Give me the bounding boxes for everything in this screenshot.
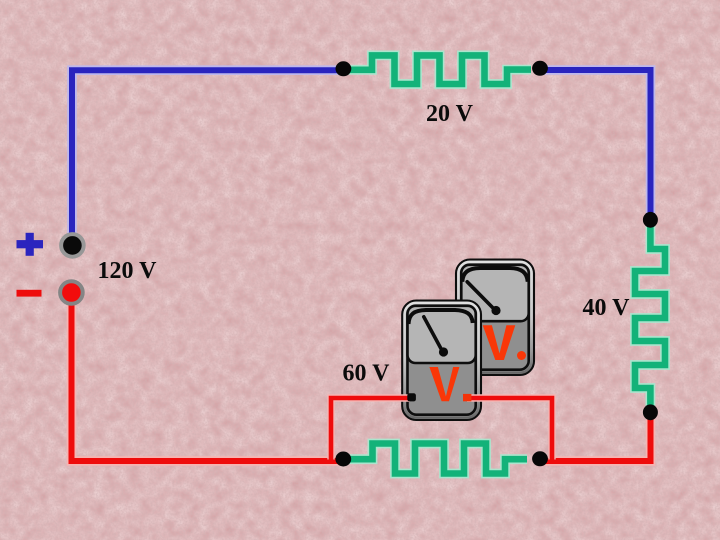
meter right terminal (red) bbox=[463, 394, 471, 401]
voltmeter V1 (front meter) bbox=[402, 301, 481, 421]
wire: red branch from meter right terminal down to bottom-right bbox=[467, 398, 552, 460]
node: bottom-left junction bbox=[335, 452, 351, 467]
wire: red from battery - down and across to bottom-left node bbox=[72, 295, 347, 461]
node: top-right junction bbox=[532, 61, 548, 76]
svg-text:60 V: 60 V bbox=[343, 361, 391, 387]
resistor R2 (bottom, 60 V) bbox=[346, 444, 527, 474]
svg-text:120 V: 120 V bbox=[98, 258, 158, 284]
node: bottom-right junction bbox=[532, 451, 548, 466]
resistor R1 (top, 20 V) bbox=[346, 55, 531, 84]
resistor R3 (right, 40 V) bbox=[635, 221, 665, 411]
wire: red branch from bottom-left up to meter left terminal bbox=[331, 398, 410, 460]
node: right upper junction bbox=[643, 212, 658, 228]
voltmeter V2 (back meter) bbox=[456, 260, 534, 376]
battery plus sign bbox=[17, 233, 44, 256]
battery negative terminal bbox=[60, 281, 83, 304]
svg-text:20 V: 20 V bbox=[426, 101, 474, 127]
battery positive terminal bbox=[61, 234, 84, 257]
svg-text:40 V: 40 V bbox=[583, 295, 631, 321]
wire: red from bottom-right node across and up to resistor node bbox=[537, 410, 651, 461]
node: right lower junction bbox=[643, 404, 658, 420]
wire: blue from battery + up and across to left node bbox=[72, 70, 346, 236]
node: top-left junction bbox=[336, 61, 352, 76]
meter left terminal (black) bbox=[407, 393, 416, 401]
wire: blue from right node across and down to resistor node bbox=[537, 70, 651, 221]
battery minus sign bbox=[17, 290, 42, 297]
